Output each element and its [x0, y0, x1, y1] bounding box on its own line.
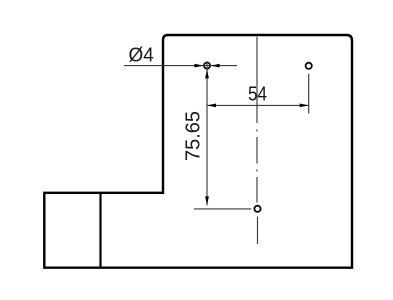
arrowhead down-pointing at bottom of 75.65: [205, 196, 209, 205]
dimension line 75.65 (vertical): [206, 61, 208, 205]
arrowhead right-pointing at 54 right end: [300, 104, 309, 108]
svg-text:54: 54: [248, 83, 267, 105]
arrowhead left-pointing at 54 left end: [207, 104, 216, 108]
extension line left of H3: [194, 208, 251, 210]
arrowhead left-pointing at H1 right: [211, 64, 220, 68]
arrowhead up-pointing at H1 bottom: [205, 69, 209, 78]
hole H2 (top-right): [306, 63, 312, 69]
extension line below H2: [308, 74, 310, 114]
leader line for Ø4: [124, 65, 237, 67]
part outline: [44, 35, 352, 268]
hole H1 (top-left, Ø4): [204, 63, 210, 69]
dimension line 54 (horizontal): [207, 104, 309, 106]
hole H3 (bottom, on centerline): [254, 206, 260, 212]
arrowhead right-pointing at H1 left: [194, 64, 203, 68]
centerline (vertical dash-dot through holes): [256, 37, 259, 244]
step edge (internal vertical line): [99, 193, 101, 268]
svg-text:Ø4: Ø4: [129, 44, 154, 66]
svg-text:75.65: 75.65: [182, 111, 204, 161]
